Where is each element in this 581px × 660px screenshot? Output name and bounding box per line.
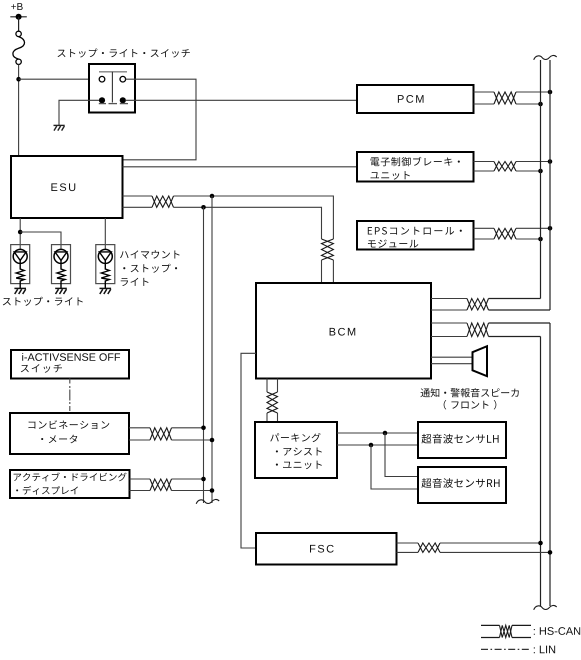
node junction battery/switch [16, 77, 21, 82]
wire ESU to high mount stop light [104, 218, 106, 250]
node PCM CAN-high to bus [548, 90, 553, 95]
label high mount stop light [120, 250, 179, 258]
wire +B to fusible link [18, 17, 20, 31]
legend LIN label [534, 646, 555, 654]
wire FSC CAN-high [397, 542, 419, 544]
wire ESU CAN-high [123, 195, 153, 197]
wire FSC CAN-low [397, 551, 419, 553]
wire brake unit CAN-low [474, 170, 495, 172]
ECU PCM box [357, 85, 474, 113]
wire switch upper-right contact to ESU [123, 79, 196, 160]
ECU BCM box [256, 283, 431, 379]
continuation squiggle display CAN drop [196, 499, 219, 503]
twisted pair FSC [418, 543, 440, 552]
node FSC CAN-high to bus [538, 541, 543, 546]
switch SW1 stop light switch box [89, 64, 135, 113]
legend HS-CAN label [534, 627, 580, 635]
switch actuator stem [111, 72, 113, 103]
wire CAN-high drop to displays [211, 196, 213, 503]
wire LIN i-ACTIVSENSE to combination meter (dash-dot) [69, 379, 71, 414]
wire BCM CAN pair 1 low [431, 309, 467, 311]
node junction stop light branch [18, 230, 23, 235]
node EPS CAN-high to bus [548, 226, 553, 231]
lamp stop light 2 [52, 245, 71, 284]
ECU FSC box [256, 533, 397, 565]
label i-ACTIVSENSE switch line2 [21, 364, 62, 373]
twisted pair BCM 1 [467, 299, 489, 311]
wire BCM CAN pair 1 high [431, 298, 467, 300]
node FSC CAN-low to bus [548, 550, 553, 555]
node +B tap (dot with bar) [10, 16, 27, 18]
node junction CAN-low branch [201, 205, 206, 210]
twisted pair combination meter [150, 428, 172, 440]
lamp stop light 1 [11, 245, 30, 284]
wire ESU CAN-low [123, 206, 153, 208]
wire display CAN-low [130, 490, 151, 492]
wire BCM to speaker (2 leads) [431, 356, 473, 358]
node display CAN-low junction [210, 488, 215, 493]
ECU EPS control module box [357, 221, 474, 250]
lamp high mount stop light [96, 245, 115, 284]
node brake unit CAN-high to bus [548, 159, 553, 164]
net HS-CAN bus line 2 lower [549, 323, 551, 606]
twisted pair BCM 2 [467, 323, 489, 337]
wire switch lower-right contact to PCM [126, 99, 357, 101]
wire EPS CAN-high [474, 227, 495, 229]
wire BCM CAN pair 2 low [431, 336, 467, 338]
wire BCM to parking assist pair left [266, 379, 268, 393]
legend LIN dash-dot symbol [481, 648, 531, 650]
wire parking assist to ultrasonic sensors line 2 [337, 444, 418, 446]
wire ESU to stop lights [19, 218, 21, 250]
sensor ultrasonic RH box [418, 467, 506, 503]
switch contact upper-left (open) [99, 76, 105, 82]
switch contact lower-left (closed) [99, 97, 105, 103]
node junction sensor line 2 [369, 443, 374, 448]
twisted pair PCM [494, 92, 516, 104]
label stop light [3, 297, 83, 306]
wire branch to sensor RH upper [385, 433, 418, 477]
switch i-ACTIVSENSE OFF box [11, 350, 129, 379]
ECU parking assist unit box [255, 422, 337, 478]
switch contact lower-right (closed) [120, 97, 126, 103]
net HS-CAN bus line 1 upper [540, 60, 542, 299]
node +B label [11, 3, 22, 10]
node PCM CAN-low to bus [538, 102, 543, 107]
switch actuator bar [99, 71, 127, 73]
twisted pair ESU [152, 196, 174, 207]
net HS-CAN bus line 1 lower [540, 337, 542, 607]
twisted pair EPS [494, 228, 516, 239]
wire fusible link to ESU [18, 65, 20, 157]
wire brake unit CAN-high [474, 161, 495, 163]
legend HS-CAN twisted pair symbol [481, 624, 500, 626]
wire display CAN-high [130, 478, 151, 480]
ECU electronic brake control unit box [357, 152, 474, 182]
net HS-CAN bus line 2 upper [549, 60, 551, 310]
continuation squiggle bus bottom [534, 605, 557, 609]
wire parking assist to ultrasonic sensors line 1 [337, 432, 418, 434]
wire PCM CAN-low [474, 103, 495, 105]
wire pair into BCM top [321, 260, 323, 283]
wire BCM left to FSC (C-route) [241, 353, 256, 548]
wire CAN-low drop to displays [203, 207, 205, 503]
wire PCM CAN-high [474, 91, 495, 93]
node display CAN-high junction [201, 477, 206, 482]
wire branch to sensor RH lower [371, 445, 418, 489]
label stop light switch [58, 48, 190, 57]
switch contact bases [99, 103, 106, 105]
twisted pair into BCM (vertical) [322, 239, 334, 260]
wire ESU to electronic brake unit [123, 166, 358, 168]
wire junction to stop light switch [19, 78, 100, 80]
wire EPS CAN-low [474, 238, 495, 240]
node meter CAN-low junction [210, 438, 215, 443]
fusible link (S-curve between two terminals) [16, 31, 21, 36]
wire combination meter CAN-high [129, 427, 150, 429]
twisted pair parking assist (vertical) [267, 392, 278, 413]
wire branch to stop light 2 [20, 232, 61, 250]
ground for stop light switch [54, 125, 65, 130]
speaker notification/alarm (front) [473, 346, 488, 376]
node EPS CAN-low to bus [538, 237, 543, 242]
ECU combination meter box [10, 413, 129, 454]
node brake unit CAN-low to bus [538, 169, 543, 174]
node junction CAN-high branch [210, 194, 215, 199]
wire switch lower-left contact to ground [59, 100, 99, 125]
label notification alarm speaker [420, 388, 518, 397]
ECU active driving display box [10, 470, 130, 498]
wire BCM to parking assist pair right [277, 379, 279, 393]
wire BCM CAN pair 2 high [431, 322, 467, 324]
node meter CAN-high junction [201, 426, 206, 431]
sensor ultrasonic LH box [418, 422, 506, 458]
twisted pair brake unit [494, 162, 516, 172]
continuation squiggle bus top [534, 55, 557, 59]
ECU ESU box [11, 156, 123, 218]
wire combination meter CAN-low [129, 439, 150, 441]
node junction sensor line 1 [383, 431, 388, 436]
switch contact upper-right (open) [120, 76, 126, 82]
twisted pair display [150, 479, 172, 491]
